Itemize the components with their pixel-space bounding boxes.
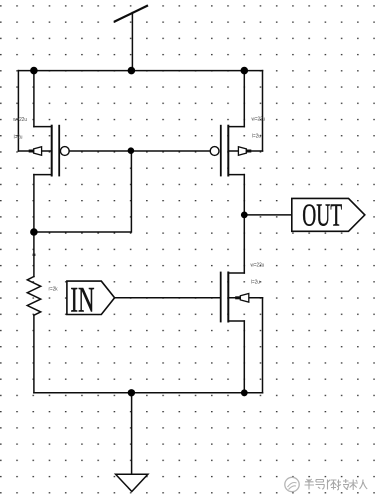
wire M1 source to rail [33,71,35,127]
wire IN to M3 gate [115,297,221,299]
resistor R1 [27,277,40,316]
svg-text:l=2u: l=2u [14,134,23,140]
pmos M2 [210,126,262,176]
node OUT wire [244,214,291,216]
OUT flag [292,198,365,233]
junction dot gnd-ground [128,389,135,396]
junction dot M1 drain-gate [30,228,38,236]
wire M3 bulk down (right outer) [262,298,264,393]
wire M2 drain down to M3 drain [243,175,245,273]
svg-text:w=22u: w=22u [250,262,264,268]
junction dot OUT node [241,212,248,219]
wire M2 bulk to VDD (right outer) [262,71,264,151]
wire gate line between M1 and M2 bubbles [69,150,210,152]
wire resistor top lead [33,232,35,277]
svg-text:l=2u: l=2u [251,279,260,285]
junction dot gnd-M3 [241,389,248,396]
IN flag [67,279,115,320]
watermark logo [285,477,299,491]
wire power stub [131,13,133,71]
junction dot VDD-M2 [241,67,249,75]
wire M3 source down [243,321,245,393]
ground [116,474,148,491]
junction dot gate line [128,147,135,154]
wire ground stub [131,393,133,475]
junction dot VDD-power [128,67,136,75]
wire gate feedback down [34,151,131,232]
power symbol VDD [115,6,147,22]
wire ground rail [34,392,263,394]
net tick on left branch [33,254,36,256]
svg-text:w=22u: w=22u [13,117,27,123]
svg-text:w=22u: w=22u [251,116,265,122]
svg-text:r=2k: r=2k [49,286,59,292]
wire M1 bulk to VDD (left outer) [17,71,19,151]
svg-text:OUT: OUT [302,198,342,233]
nmos M3 [221,273,263,322]
wire resistor bottom lead [33,315,35,393]
wire M2 source to rail [243,71,245,127]
wire VDD rail [18,70,262,72]
junction dot VDD-M1 [30,67,38,75]
wire M1 drain down [33,175,35,232]
watermark text [305,479,368,490]
pmos M1 [18,126,69,176]
svg-text:IN: IN [70,279,94,320]
svg-text:l=2u: l=2u [252,133,261,139]
